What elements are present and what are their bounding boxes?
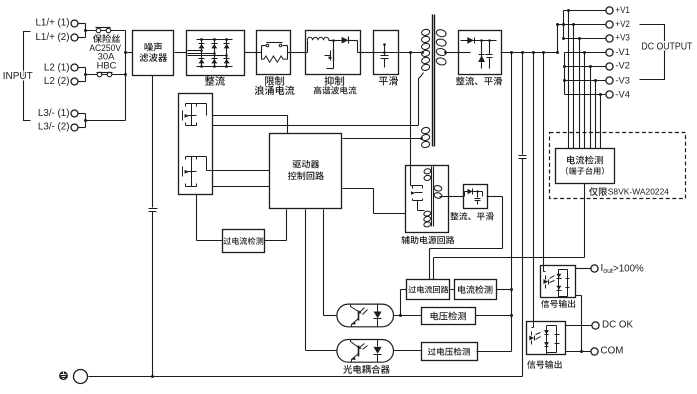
svg-text:+V1: +V1 (615, 5, 630, 16)
svg-text:-V3: -V3 (615, 75, 630, 86)
svg-text:L3/- (1): L3/- (1) (38, 108, 70, 119)
svg-text:S8VK-WA20224: S8VK-WA20224 (608, 187, 669, 197)
svg-text:-V2: -V2 (615, 61, 630, 72)
svg-text:HBC: HBC (97, 59, 117, 70)
svg-text:-V1: -V1 (615, 47, 630, 58)
svg-text:COM: COM (601, 346, 624, 357)
svg-text:+V2: +V2 (615, 19, 630, 30)
svg-text:L2 (2): L2 (2) (44, 76, 70, 87)
svg-text:INPUT: INPUT (3, 71, 33, 82)
svg-text:DC OUTPUT: DC OUTPUT (641, 42, 692, 53)
svg-text:L1/+ (2): L1/+ (2) (35, 32, 69, 43)
svg-text:DC OK: DC OK (602, 320, 633, 331)
svg-text:+V3: +V3 (615, 33, 630, 44)
svg-text:L3/- (2): L3/- (2) (38, 122, 70, 133)
svg-text:-V4: -V4 (615, 89, 630, 100)
svg-text:L2 (1): L2 (1) (44, 62, 70, 73)
svg-text:L1/+ (1): L1/+ (1) (35, 18, 69, 29)
